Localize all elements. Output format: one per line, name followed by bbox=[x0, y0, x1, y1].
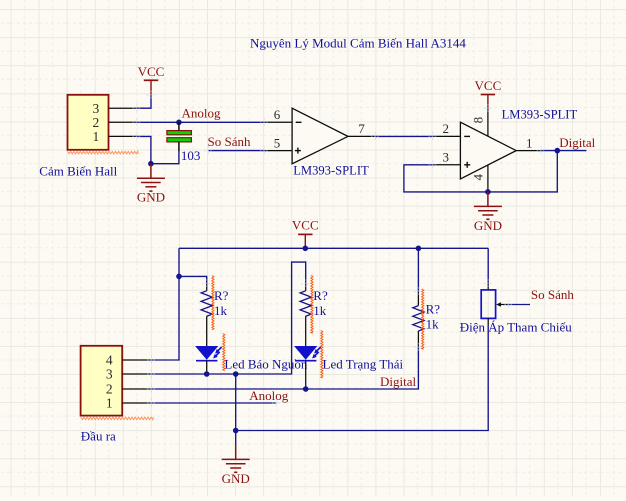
svg-text:3: 3 bbox=[106, 367, 113, 382]
svg-text:2: 2 bbox=[443, 121, 450, 136]
resistor R3 bbox=[413, 248, 424, 347]
wire pin1 Anolog stub bbox=[151, 402, 276, 404]
svg-text:LM393-SPLIT: LM393-SPLIT bbox=[293, 164, 369, 178]
pin 3 of U1B bbox=[433, 150, 461, 165]
svg-text:R?: R? bbox=[214, 288, 229, 303]
selection squiggle R3 bbox=[422, 289, 424, 349]
capacitor C1 plates bbox=[167, 131, 192, 142]
LED D2 Led Trạng Thái bbox=[294, 346, 321, 381]
pin 3 of J1 bbox=[93, 101, 137, 116]
power port VCC bottom center bbox=[292, 218, 319, 249]
svg-text:1: 1 bbox=[106, 396, 113, 411]
wire pin3 to VCC bbox=[137, 95, 151, 108]
wire U1A out to U1B in bbox=[375, 135, 433, 137]
junction VCC stem on rail bbox=[303, 246, 309, 252]
svg-text:Digital: Digital bbox=[559, 135, 595, 150]
svg-text:8: 8 bbox=[470, 117, 485, 124]
junction at Digital output bbox=[555, 148, 561, 154]
svg-text:4: 4 bbox=[470, 174, 485, 181]
svg-text:Anolog: Anolog bbox=[182, 106, 222, 121]
svg-text:2: 2 bbox=[106, 382, 113, 397]
svg-text:Đầu ra: Đầu ra bbox=[81, 429, 116, 444]
wire capacitor bottom to ground junction bbox=[151, 151, 179, 164]
selection squiggle under J2 bbox=[81, 417, 154, 420]
svg-text:GND: GND bbox=[137, 190, 165, 205]
junction D2 on pin2 net bbox=[303, 386, 309, 392]
pin 7 of U1A bbox=[348, 121, 375, 136]
svg-text:1: 1 bbox=[526, 135, 533, 150]
junction D1 on pin3 net bbox=[204, 371, 210, 377]
svg-text:2: 2 bbox=[93, 115, 100, 130]
power port VCC top-left bbox=[138, 64, 165, 95]
wire So Sánh stub to U1A pin5 bbox=[208, 150, 264, 152]
feedback wire U1B pin3 to bottom rail bbox=[404, 151, 557, 192]
junction R1 branch bbox=[176, 274, 182, 280]
wire Digital output bbox=[541, 150, 587, 152]
pin hotspot markers bbox=[133, 91, 546, 408]
connector J2 Đầu ra (body) bbox=[81, 346, 123, 416]
op-amp U1A body bbox=[292, 108, 348, 164]
svg-text:1k: 1k bbox=[313, 303, 327, 318]
pin 8 of U1B (V+) bbox=[470, 109, 488, 137]
connector J1 Cảm Biến Hall (body) bbox=[68, 95, 109, 150]
power port VCC above U1B bbox=[475, 78, 502, 109]
junction at bottom ground node bbox=[233, 428, 239, 434]
svg-text:So Sánh: So Sánh bbox=[208, 134, 251, 149]
svg-text:4: 4 bbox=[106, 353, 113, 368]
selection squiggle D1 bbox=[223, 334, 225, 371]
svg-text:Điện Áp Tham Chiếu: Điện Áp Tham Chiếu bbox=[460, 320, 573, 335]
svg-text:GND: GND bbox=[474, 218, 502, 233]
svg-text:1: 1 bbox=[93, 129, 100, 144]
svg-text:R?: R? bbox=[313, 288, 328, 303]
capacitor C1 top lead bbox=[178, 122, 180, 130]
reference pot RV1 Điện Áp Tham Chiếu bbox=[481, 248, 495, 325]
resistor R1 bbox=[201, 284, 212, 346]
ground GND left bbox=[137, 164, 165, 205]
pot wiper arrow bbox=[496, 302, 509, 307]
svg-text:3: 3 bbox=[443, 150, 450, 165]
svg-text:VCC: VCC bbox=[475, 78, 502, 93]
svg-text:Cảm Biến Hall: Cảm Biến Hall bbox=[39, 164, 117, 179]
svg-text:So Sánh: So Sánh bbox=[531, 287, 574, 302]
wire pin2 Digital net to R3 bottom bbox=[151, 347, 418, 389]
LED D1 Led Báo Nguồn bbox=[195, 346, 222, 373]
pin 1 of J2 bbox=[106, 396, 151, 411]
pin 4 of J2 bbox=[106, 353, 151, 368]
junction branch to ground on pin3 net bbox=[233, 371, 239, 377]
selection squiggle under J1 bbox=[68, 151, 139, 154]
pin 2 of J1 bbox=[93, 115, 137, 130]
resistor R2 bbox=[300, 284, 311, 346]
svg-text:7: 7 bbox=[358, 121, 365, 136]
svg-text:6: 6 bbox=[274, 107, 281, 122]
wire jog to R1 top bbox=[179, 276, 207, 283]
wire pot bottom to ground junction bbox=[236, 325, 489, 431]
wire rail left drop to connector pin4 bbox=[151, 248, 179, 360]
svg-text:VCC: VCC bbox=[138, 64, 165, 79]
ground GND bottom center bbox=[222, 445, 250, 486]
pin 5 of U1A bbox=[264, 135, 292, 150]
pin 2 of U1B bbox=[433, 121, 461, 136]
svg-text:Digital: Digital bbox=[380, 374, 416, 389]
pin 3 of J2 bbox=[106, 367, 151, 382]
svg-text:GND: GND bbox=[222, 471, 250, 486]
ground GND below U1B bbox=[474, 192, 502, 233]
pin 4 of U1B (V-) bbox=[470, 165, 488, 192]
wire pin1 to ground junction bbox=[137, 136, 151, 163]
capacitor C1 bottom lead bbox=[178, 142, 180, 151]
pin 1 of J1 bbox=[93, 129, 137, 144]
wire pin3 net with riser to R2 bbox=[151, 262, 305, 374]
svg-text:VCC: VCC bbox=[292, 218, 319, 233]
svg-text:Led Trạng Thái: Led Trạng Thái bbox=[323, 357, 404, 372]
wire Anolog net (pin2 to U1A pin6) bbox=[137, 121, 264, 123]
wire D2 bottom to pin2 net bbox=[305, 381, 307, 389]
svg-text:103: 103 bbox=[181, 148, 201, 163]
junction at capacitor top bbox=[176, 120, 182, 126]
selection squiggle D2 bbox=[321, 331, 323, 379]
pin 1 of U1B bbox=[516, 135, 541, 150]
junction R3 branch on rail bbox=[416, 246, 422, 252]
pin 6 of U1A bbox=[264, 107, 292, 122]
wire So Sánh to wiper bbox=[509, 304, 530, 306]
svg-text:Anolog: Anolog bbox=[249, 388, 289, 403]
svg-text:R?: R? bbox=[426, 302, 441, 317]
svg-text:Led Báo Nguồn: Led Báo Nguồn bbox=[224, 356, 308, 371]
svg-text:LM393-SPLIT: LM393-SPLIT bbox=[502, 108, 578, 122]
svg-text:3: 3 bbox=[93, 101, 100, 116]
junction below U1B pin4 bbox=[485, 189, 491, 195]
junction at ground node bbox=[148, 161, 154, 167]
svg-text:Nguyên Lý Modul Cảm Biến Hall: Nguyên Lý Modul Cảm Biến Hall A3144 bbox=[250, 36, 466, 51]
wire pin3 branch down to ground junction bbox=[235, 374, 237, 445]
pin 2 of J2 bbox=[106, 382, 151, 397]
svg-text:1k: 1k bbox=[426, 316, 440, 331]
svg-text:5: 5 bbox=[274, 135, 281, 150]
svg-text:1k: 1k bbox=[214, 303, 228, 318]
op-amp U1B body bbox=[460, 122, 516, 179]
selection squiggle R1 bbox=[212, 276, 214, 330]
wire VCC rail bbox=[179, 247, 488, 249]
selection squiggle R2 bbox=[311, 276, 313, 334]
